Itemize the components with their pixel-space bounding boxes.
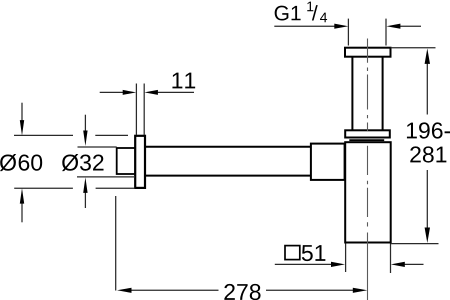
label dia60 num xyxy=(19,154,43,170)
dia32 bottom arrow line xyxy=(84,192,86,208)
label 278 xyxy=(224,284,260,300)
top flange of inlet pipe xyxy=(345,48,391,57)
dim 278 left arrowhead xyxy=(117,288,132,293)
dim 278 right arrowhead xyxy=(353,288,368,293)
dim 51 ext right xyxy=(390,244,392,274)
dim 11 right leader xyxy=(157,91,194,93)
dia60 ext top left seg xyxy=(14,134,73,136)
label 196- xyxy=(407,122,450,138)
wall rosette flange xyxy=(135,136,145,188)
label 51 xyxy=(302,245,326,261)
dim G1 arrowhead right xyxy=(386,24,400,29)
dim 196-281 line lower xyxy=(426,170,428,229)
label slash xyxy=(312,5,318,20)
dia60 ext top right seg xyxy=(95,134,128,136)
inlet pipe right wall xyxy=(382,57,384,131)
dim 278 ext left xyxy=(115,196,117,291)
dim 196-281 upper arrowhead xyxy=(425,48,430,64)
horizontal outlet pipe bottom wall xyxy=(145,175,311,177)
dia32 ext bottom xyxy=(77,176,135,178)
label 11 xyxy=(172,73,195,89)
dim 196-281 ext top xyxy=(391,47,436,49)
dim G1 1/4 leader under text xyxy=(274,25,335,27)
dim 278 left line xyxy=(130,289,219,291)
dim 196-281 ext bottom xyxy=(391,243,439,245)
center line of vertical trap pipe xyxy=(367,39,369,300)
dim 196-281 lower arrowhead xyxy=(425,228,430,244)
label dia60 sym xyxy=(0,154,16,171)
dim G1 ext right xyxy=(385,19,387,46)
dia32 ext top xyxy=(78,146,117,148)
dia32 bottom arrowhead xyxy=(83,177,87,193)
union nut xyxy=(345,130,390,137)
trap body xyxy=(345,142,391,242)
dim 51 left arrowhead xyxy=(331,262,345,267)
dia60 ext bottom right seg xyxy=(96,187,135,189)
dia60 top arrow line xyxy=(21,103,23,121)
gasket washer line xyxy=(349,139,384,141)
label sub4 xyxy=(320,13,327,23)
outlet coupling xyxy=(311,144,345,180)
horizontal outlet pipe top wall xyxy=(145,146,311,148)
label G1 xyxy=(275,6,301,21)
dim 11 ext line left xyxy=(135,84,137,136)
dim G1 right tail xyxy=(400,25,421,27)
dim 11 ext line right xyxy=(143,84,145,136)
dim 11 arrowhead right xyxy=(144,90,158,95)
dia60 top arrowhead xyxy=(20,120,24,136)
dim 51 right arrowhead xyxy=(391,262,405,267)
dim 278 right line xyxy=(266,289,354,291)
label dia32 sym xyxy=(62,154,78,171)
dia60 bottom arrowhead xyxy=(20,188,24,204)
dim G1 arrowhead left xyxy=(334,24,348,29)
dim 51 left line xyxy=(275,263,332,265)
dia60 bottom arrow line xyxy=(21,203,23,222)
dim 51 ext left xyxy=(345,244,347,273)
dim 11 arrowhead left xyxy=(123,90,137,95)
dia32 top arrow line xyxy=(84,115,86,132)
label sup1 xyxy=(307,2,313,12)
inlet pipe left wall xyxy=(351,57,353,131)
dim 11 left leader xyxy=(100,91,124,93)
dim G1 ext left xyxy=(347,19,349,46)
square symbol of dim 51 xyxy=(285,246,300,260)
dim 51 right line xyxy=(404,263,424,265)
dia60 ext bottom left seg xyxy=(14,187,73,189)
label dia32 num xyxy=(80,154,104,170)
dim 196-281 line upper xyxy=(426,63,428,115)
wall pipe stub xyxy=(117,148,136,174)
label 281 xyxy=(410,146,446,162)
dia32 top arrowhead xyxy=(83,131,87,147)
